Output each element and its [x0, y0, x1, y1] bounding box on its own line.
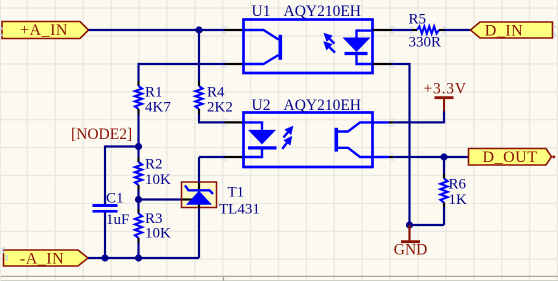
svg-text:+3.3V: +3.3V [424, 81, 467, 98]
emission arrows U2 [284, 132, 288, 137]
junction R3 bottom [135, 254, 142, 261]
svg-text:+A_IN: +A_IN [20, 22, 68, 39]
svg-text:R1: R1 [145, 85, 163, 101]
selection handles (decorative) [0, 27, 2, 29]
transistor T1 TL431 [182, 182, 217, 208]
wire R1-R2 segment [137, 147, 139, 158]
wire +A_IN to junction [89, 29, 200, 31]
wire R1 to node2 junction [137, 114, 139, 146]
resistor R4 [198, 81, 200, 86]
svg-text:C1: C1 [106, 191, 124, 207]
wire R3 top [137, 200, 139, 210]
wire ref node to T1 [139, 198, 183, 200]
pin U2.2 [225, 156, 244, 158]
power flag +A_IN [2, 22, 89, 40]
svg-text:[NODE2]: [NODE2] [71, 126, 132, 143]
wire corner down to R1 [137, 63, 139, 81]
pin U1.3 [373, 29, 393, 31]
svg-text:R4: R4 [207, 85, 225, 101]
wire GND column vertical [408, 63, 410, 225]
optocoupler U1 AQY210EH [244, 20, 373, 74]
power flag D_IN [471, 22, 553, 39]
wire -A_IN row [88, 257, 199, 259]
svg-text:D_IN: D_IN [485, 22, 523, 39]
svg-text:4K7: 4K7 [145, 100, 171, 116]
svg-text:U2: U2 [252, 97, 271, 114]
wire U2.3 to D_OUT [393, 156, 470, 158]
wire U1.4 to GND column [392, 63, 410, 65]
junction GND [406, 221, 413, 228]
pin U2.4 [373, 121, 390, 123]
emission arrows U1 [330, 39, 335, 44]
resistor R6 [443, 157, 445, 174]
svg-text:R5: R5 [409, 12, 427, 28]
wire T1 cathode up to U2 pin2 row [198, 157, 200, 183]
svg-text:1uF: 1uF [106, 212, 129, 228]
wire R6 bottom to GND junction [443, 207, 445, 225]
wire C1 bottom lead [104, 213, 106, 259]
wire R5 to D_IN [445, 29, 471, 31]
svg-text:TL431: TL431 [219, 202, 260, 218]
capacitor C1 [93, 204, 118, 207]
power port +3.3V [424, 81, 467, 112]
svg-text:2K2: 2K2 [207, 100, 233, 116]
svg-text:T1: T1 [228, 185, 245, 201]
ground GND [394, 225, 428, 259]
svg-text:AQY210EH: AQY210EH [284, 97, 362, 114]
resistor R5 [412, 29, 417, 31]
wire R2 to ref junction [137, 190, 139, 200]
wire stub right of D_OUT [553, 156, 556, 159]
svg-text:R6: R6 [449, 177, 467, 193]
wire R4 to U2 pin1 [198, 114, 200, 122]
wire C1 top lead [104, 146, 106, 205]
wire left column top (y64 row to R1) [139, 63, 225, 65]
pin U2.1 [225, 121, 244, 123]
wire U1.3 to R5 [392, 29, 412, 31]
junction ref node [135, 196, 142, 203]
pin U1.1 [225, 29, 244, 31]
svg-text:U1: U1 [252, 3, 271, 20]
svg-text:330R: 330R [409, 35, 442, 51]
wire junction to U1 pin 1 [199, 29, 225, 31]
wire node2 to C1 column [105, 145, 139, 147]
pin hotspot markers (decorative) [222, 26, 226, 27]
wire R3 bottom [137, 243, 139, 259]
junction R6 top [440, 153, 447, 160]
junction C1 bottom [101, 254, 108, 261]
svg-text:D_OUT: D_OUT [483, 149, 538, 166]
wire up to T1 anode [198, 208, 200, 258]
resistor R3 [137, 209, 139, 214]
svg-text:AQY210EH: AQY210EH [284, 3, 362, 20]
pin U1.4 [373, 63, 393, 65]
pin U1.2 [225, 63, 244, 65]
svg-text:10K: 10K [145, 172, 171, 188]
svg-text:-A_IN: -A_IN [20, 250, 64, 267]
svg-text:R2: R2 [145, 157, 163, 173]
node junction A (top) [195, 26, 202, 33]
resistor R1 [137, 81, 139, 86]
svg-text:1K: 1K [449, 192, 468, 208]
svg-text:10K: 10K [145, 226, 171, 242]
power flag D_OUT [469, 149, 552, 167]
optocoupler U2 AQY210EH [244, 113, 373, 168]
junction node2 [135, 143, 142, 150]
wire R4 column from top junction [198, 30, 200, 81]
pin U2.3 [373, 156, 390, 158]
svg-text:GND: GND [394, 242, 428, 259]
power flag -A_IN [4, 250, 89, 267]
resistor R2 [137, 157, 139, 162]
wire U2.4 to +3.3V [393, 121, 444, 123]
